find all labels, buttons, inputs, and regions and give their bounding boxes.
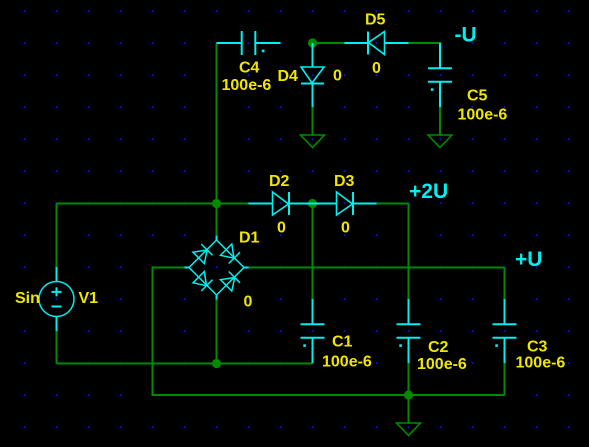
- diode D3: [313, 192, 377, 215]
- capacitor C4: [217, 31, 281, 55]
- svg-text:D3: D3: [334, 173, 355, 190]
- wire D2 D3 row and +2U column down to C2: [217, 204, 409, 396]
- svg-text:D2: D2: [269, 173, 290, 190]
- junction at V1 top and bridge top: [212, 199, 221, 208]
- svg-text:0: 0: [341, 220, 350, 237]
- svg-text:C3: C3: [527, 339, 548, 356]
- svg-text:0: 0: [277, 220, 286, 237]
- wire C5 bottom to ground: [439, 82, 441, 135]
- svg-text:C5: C5: [467, 88, 488, 105]
- svg-text:C1: C1: [332, 334, 353, 351]
- ground under D4: [301, 107, 325, 148]
- svg-text:+2U: +2U: [409, 180, 448, 203]
- svg-text:+U: +U: [515, 248, 542, 271]
- wire +U rail from bridge plus through C3 column to ground rail: [249, 268, 505, 396]
- capacitor C2: [397, 299, 421, 363]
- capacitor C3: [493, 299, 517, 363]
- svg-text:D4: D4: [278, 68, 299, 85]
- svg-text:V1: V1: [79, 290, 99, 307]
- capacitor C1: [301, 299, 325, 363]
- capacitor C5: [428, 43, 452, 107]
- ground under C5: [428, 107, 452, 148]
- wire bridge bottom to AC row: [216, 299, 218, 364]
- junction at bridge bottom AC row: [212, 359, 221, 368]
- voltage source V1: [39, 267, 74, 331]
- svg-text:100e-6: 100e-6: [516, 355, 566, 372]
- junction at D2 D3 C1 node: [308, 199, 317, 208]
- svg-text:100e-6: 100e-6: [458, 107, 508, 124]
- svg-text:0: 0: [244, 294, 253, 311]
- wire top rail from C4 junction to D5 and on to C5 corner: [313, 43, 441, 68]
- svg-text:0: 0: [372, 60, 381, 77]
- svg-text:D5: D5: [365, 12, 386, 29]
- junction at ground rail: [404, 390, 413, 399]
- svg-text:C4: C4: [239, 60, 260, 77]
- wire from V1 top row to bridge top column: [57, 43, 217, 235]
- wire bridge minus loop to ground rail: [153, 268, 505, 396]
- ground at bottom rail: [397, 395, 421, 436]
- junction at C4 D4 D5 node: [308, 38, 317, 47]
- diode D4: [301, 43, 324, 107]
- svg-text:0: 0: [333, 68, 342, 85]
- diode D2: [249, 192, 313, 215]
- svg-text:D1: D1: [239, 230, 260, 247]
- svg-text:Sin: Sin: [15, 290, 40, 307]
- svg-text:C2: C2: [428, 339, 449, 356]
- diode D5: [345, 32, 409, 55]
- svg-text:100e-6: 100e-6: [322, 354, 372, 371]
- svg-text:100e-6: 100e-6: [417, 356, 467, 373]
- bridge rectifier D1: [185, 236, 249, 300]
- svg-text:100e-6: 100e-6: [222, 77, 272, 94]
- wire V1 leads to bottom AC row to C1: [57, 204, 313, 364]
- svg-text:-U: -U: [455, 24, 477, 47]
